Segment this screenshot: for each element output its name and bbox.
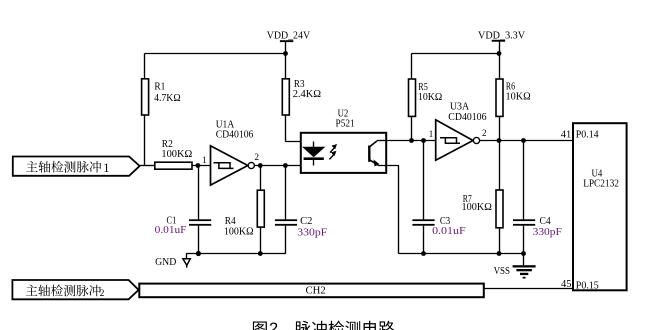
svg-text:330pF: 330pF: [533, 227, 562, 238]
svg-text:CD40106: CD40106: [448, 112, 486, 123]
svg-text:1: 1: [103, 161, 109, 175]
svg-text:LPC2132: LPC2132: [583, 179, 619, 190]
svg-text:VDD_24V: VDD_24V: [267, 29, 310, 41]
svg-text:R1: R1: [154, 82, 165, 93]
svg-text:2: 2: [482, 128, 487, 138]
svg-text:P0.14: P0.14: [576, 129, 599, 140]
svg-text:VSS: VSS: [494, 266, 511, 277]
svg-text:100KΩ: 100KΩ: [462, 202, 493, 213]
svg-text:2: 2: [269, 320, 278, 330]
svg-text:GND: GND: [155, 257, 177, 268]
svg-text:CH2: CH2: [306, 286, 326, 297]
svg-text:R4: R4: [225, 216, 237, 227]
svg-text:2.4KΩ: 2.4KΩ: [293, 89, 322, 100]
svg-text:P0.15: P0.15: [576, 280, 599, 291]
svg-text:100KΩ: 100KΩ: [161, 149, 192, 160]
svg-text:U3A: U3A: [450, 101, 470, 112]
svg-text:C2: C2: [300, 216, 312, 227]
svg-text:4.7KΩ: 4.7KΩ: [154, 93, 181, 104]
svg-text:100KΩ: 100KΩ: [224, 227, 254, 238]
svg-text:CD40106: CD40106: [216, 130, 254, 141]
svg-text:2: 2: [100, 289, 105, 299]
svg-text:330pF: 330pF: [297, 227, 327, 238]
svg-text:0.01uF: 0.01uF: [432, 226, 466, 237]
svg-text:2: 2: [255, 152, 260, 162]
svg-text:1: 1: [429, 129, 434, 139]
svg-text:1: 1: [202, 155, 207, 165]
svg-text:41: 41: [561, 129, 572, 140]
svg-text:10KΩ: 10KΩ: [506, 91, 531, 102]
svg-text:0.01uF: 0.01uF: [155, 225, 187, 236]
svg-text:C4: C4: [540, 216, 552, 227]
svg-text:10KΩ: 10KΩ: [418, 92, 443, 103]
svg-text:P521: P521: [336, 118, 355, 129]
